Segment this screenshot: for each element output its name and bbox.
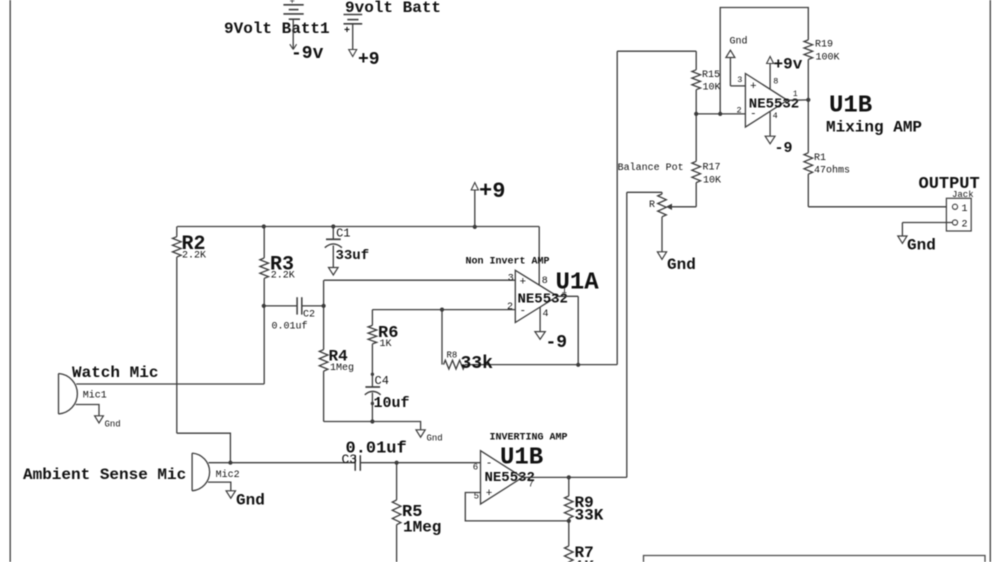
node junction Mic2 [228,461,232,465]
battery B2 9volt Batt plates [344,14,363,16]
svg-text:+: + [290,0,295,7]
battery B1 9Volt Batt1 plates [283,4,303,6]
op-amp U1B top triangle [745,74,787,128]
Mic2 ground stub [208,482,231,491]
svg-text:Gnd: Gnd [105,420,121,430]
U1Bb output wire [523,476,569,478]
svg-text:R19: R19 [815,40,833,51]
net arrow +9 at U1A [471,183,478,191]
potentiometer R [661,192,663,194]
svg-text:R: R [649,200,655,211]
svg-text:Mixing AMP: Mixing AMP [826,119,922,137]
svg-text:+9v: +9v [774,56,803,74]
node junction C1 top [331,224,335,228]
svg-text:C2: C2 [303,310,315,321]
svg-text:R15: R15 [702,70,720,81]
node junction U1Bt out [806,98,810,102]
svg-text:4: 4 [773,111,778,121]
svg-text:R17: R17 [703,163,721,174]
resistor R2 [173,237,182,257]
wire riser to balance pot [626,192,628,477]
U1Bt output wire [787,99,808,101]
wire pot top [627,191,662,193]
wire +9 rail y227 [177,226,539,228]
title block box [644,556,986,562]
node junction R8 top [440,308,444,312]
svg-text:3: 3 [508,274,514,285]
svg-text:Mic1: Mic1 [83,390,107,402]
ground rail wire [324,422,421,430]
wire Mic1 to R3 [76,383,264,385]
net arrow +9v U1Bt [767,57,774,64]
node junction C2 left [262,304,266,308]
svg-text:Gnd: Gnd [427,434,443,444]
op-amp U1A triangle [515,270,557,322]
wire Mic2 to C3 [209,462,356,464]
svg-text:0.01uf: 0.01uf [346,440,407,459]
battery B1 wire to -9v [292,19,294,48]
svg-text:+: + [344,26,350,37]
ground Gnd rail [416,430,425,437]
svg-text:-9: -9 [775,140,793,157]
svg-text:U1A: U1A [556,270,600,297]
U1Bt pin4 -9 [769,112,771,136]
jack pin 2 [952,220,957,225]
svg-text:R1: R1 [814,153,826,164]
U1Bb feedback pin5 [465,493,569,521]
node junction C2-R4 [322,304,326,308]
wire pin8 drop [538,227,540,286]
wire pin2 U1A [372,309,515,311]
svg-text:+9: +9 [479,179,505,204]
capacitor C4 electrolytic [365,386,380,388]
svg-text:Watch Mic: Watch Mic [72,364,158,382]
wire U1A out riser [616,51,618,364]
svg-text:-: - [486,458,493,470]
capacitor C2 [264,305,297,307]
svg-text:1Meg: 1Meg [330,363,354,374]
border frame right [989,0,991,562]
svg-text:8: 8 [773,77,778,87]
svg-text:Gnd: Gnd [667,256,696,274]
resistor R8 [444,360,466,369]
svg-text:1Meg: 1Meg [403,519,441,537]
svg-text:-9: -9 [546,333,568,353]
resistor R9 [565,496,574,518]
node junction R9 bottom [567,519,571,523]
wire pin2 U1Bt [696,113,745,115]
svg-text:U1B: U1B [500,445,543,472]
node junction C4 bottom [370,419,374,423]
svg-text:-9v: -9v [291,44,324,64]
svg-text:Mic2: Mic2 [216,469,240,481]
svg-text:2: 2 [737,106,742,116]
svg-text:NE5532: NE5532 [749,96,799,112]
svg-text:100K: 100K [816,53,840,64]
svg-text:C4: C4 [375,374,389,388]
wire jack pin2 gnd [902,222,952,224]
wire feedback loop [720,8,808,114]
svg-text:+9: +9 [358,50,380,70]
node junction U1Bb out [567,475,571,479]
resistor R7 [565,546,574,562]
connector jack box [946,198,971,231]
svg-text:U1B: U1B [829,93,872,120]
jack pin 1 [952,204,957,209]
svg-text:Non Invert AMP: Non Invert AMP [466,257,550,268]
svg-text:33uf: 33uf [336,248,370,264]
svg-text:1K: 1K [380,339,392,350]
node junction U1A out [576,363,580,367]
svg-text:+: + [750,81,757,93]
microphone Mic1 [59,374,78,415]
U1A pin4 -9 [539,307,541,331]
microphone Mic2 [192,453,210,491]
svg-text:3: 3 [737,75,742,85]
svg-text:C1: C1 [336,227,350,241]
svg-text:+: + [520,277,527,289]
wire R1 to jack [808,206,952,208]
svg-text:2: 2 [962,220,968,231]
wire R8 drop [441,310,443,365]
svg-text:2.2K: 2.2K [271,271,295,282]
resistor R17 [695,114,697,161]
wire R2 to Mic2 node [177,433,231,463]
border frame left [9,0,11,562]
capacitor C3 [354,455,356,471]
svg-text:33k: 33k [461,354,494,374]
svg-text:+: + [486,488,493,500]
svg-text:10uf: 10uf [374,395,410,412]
svg-text:33K: 33K [575,507,604,525]
svg-text:1K: 1K [575,558,595,562]
resistor R1 [807,100,809,153]
C4 terminal dots [371,373,374,376]
battery B2 wire to +9 [352,24,354,50]
node junction +9 rail [473,225,477,229]
svg-text:INVERTING AMP: INVERTING AMP [490,433,568,444]
svg-text:10K: 10K [703,176,721,187]
node junction R5 top [395,461,399,465]
pot wiper arrow [669,206,697,208]
ground pot [657,252,666,260]
svg-text:9volt Batt: 9volt Batt [345,0,441,17]
svg-text:Gnd: Gnd [907,237,936,255]
node junction pin2 net [694,112,698,116]
svg-text:Gnd: Gnd [730,36,748,48]
wire pin3 U1A [324,279,515,281]
resistor R4 [323,280,325,349]
op-amp U1B bottom triangle [481,451,523,504]
ground Gnd jack [898,236,907,243]
resistor R6 [371,310,373,326]
resistor R15 [695,51,697,70]
svg-text:Gnd: Gnd [236,492,265,510]
svg-text:47ohms: 47ohms [814,165,850,177]
svg-text:0.01uf: 0.01uf [272,321,308,333]
svg-text:Ambient Sense Mic: Ambient Sense Mic [23,466,186,484]
capacitor C1 electrolytic [332,227,334,240]
Mic1 ground stub [76,405,99,416]
svg-text:8: 8 [542,276,548,287]
resistor R5 [396,463,398,500]
svg-text:4: 4 [543,309,549,320]
svg-text:2: 2 [507,302,513,313]
resistor R3 [263,227,265,259]
resistor R19 [804,40,813,60]
svg-text:10K: 10K [703,83,721,94]
svg-text:1: 1 [962,204,968,215]
svg-text:6: 6 [473,463,478,473]
svg-text:R8: R8 [447,351,458,361]
svg-text:Balance Pot: Balance Pot [618,162,684,174]
svg-text:2.2K: 2.2K [182,251,206,262]
svg-text:9Volt Batt1: 9Volt Batt1 [224,20,330,38]
node junction R3 top [262,224,266,228]
U1A output wire [557,295,578,297]
node junction gnd loop [718,112,722,116]
